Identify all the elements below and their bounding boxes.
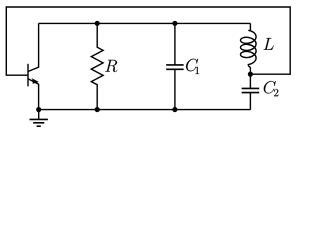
node: top rail / C1 junction dot [172,21,177,26]
label L [264,38,274,50]
inductor L coil [241,30,257,65]
node: bottom rail / R junction dot [95,107,100,112]
node: bottom rail / emitter-ground junction dot [36,107,41,112]
ground stem [38,110,40,120]
ground bar 3 [37,125,41,127]
capacitor C1 top plate [166,64,184,66]
capacitor C2 top plate [242,87,260,89]
transistor Q1 collector lead [28,23,39,71]
capacitor C2 bottom plate [242,92,260,94]
node: bottom rail / C1 junction dot [172,107,177,112]
ground bar 2 [33,122,44,124]
wire: top rail (collector to inductor) [39,22,251,24]
label C1 (subscript 1) [195,67,199,74]
capacitor C2 bottom lead [249,93,251,110]
ground bar 1 [30,118,48,120]
resistor R zigzag [91,23,103,109]
wire: feedback loop from L-C2 tap via top to base of Q1 [6,7,290,75]
node: top rail / R junction dot [95,21,100,26]
label C2 (C) [264,81,276,93]
label C2 (subscript 2) [274,89,278,96]
wire: bottom rail (emitter/ground to C2) [39,109,251,111]
transistor Q1 emitter lead [28,79,39,110]
label R [105,60,117,72]
capacitor C1 bottom lead [174,69,176,109]
label C1 (C) [186,59,198,71]
inductor L bottom lead [248,66,250,75]
node: L-C2 junction / feedback tap dot [248,72,253,77]
transistor Q1 base bar [27,64,29,87]
capacitor C1 top lead [174,23,176,65]
inductor L top lead [249,23,251,30]
capacitor C1 bottom plate [166,68,184,70]
transistor Q1 emitter arrowhead [32,78,39,84]
capacitor C2 top lead [249,74,251,88]
